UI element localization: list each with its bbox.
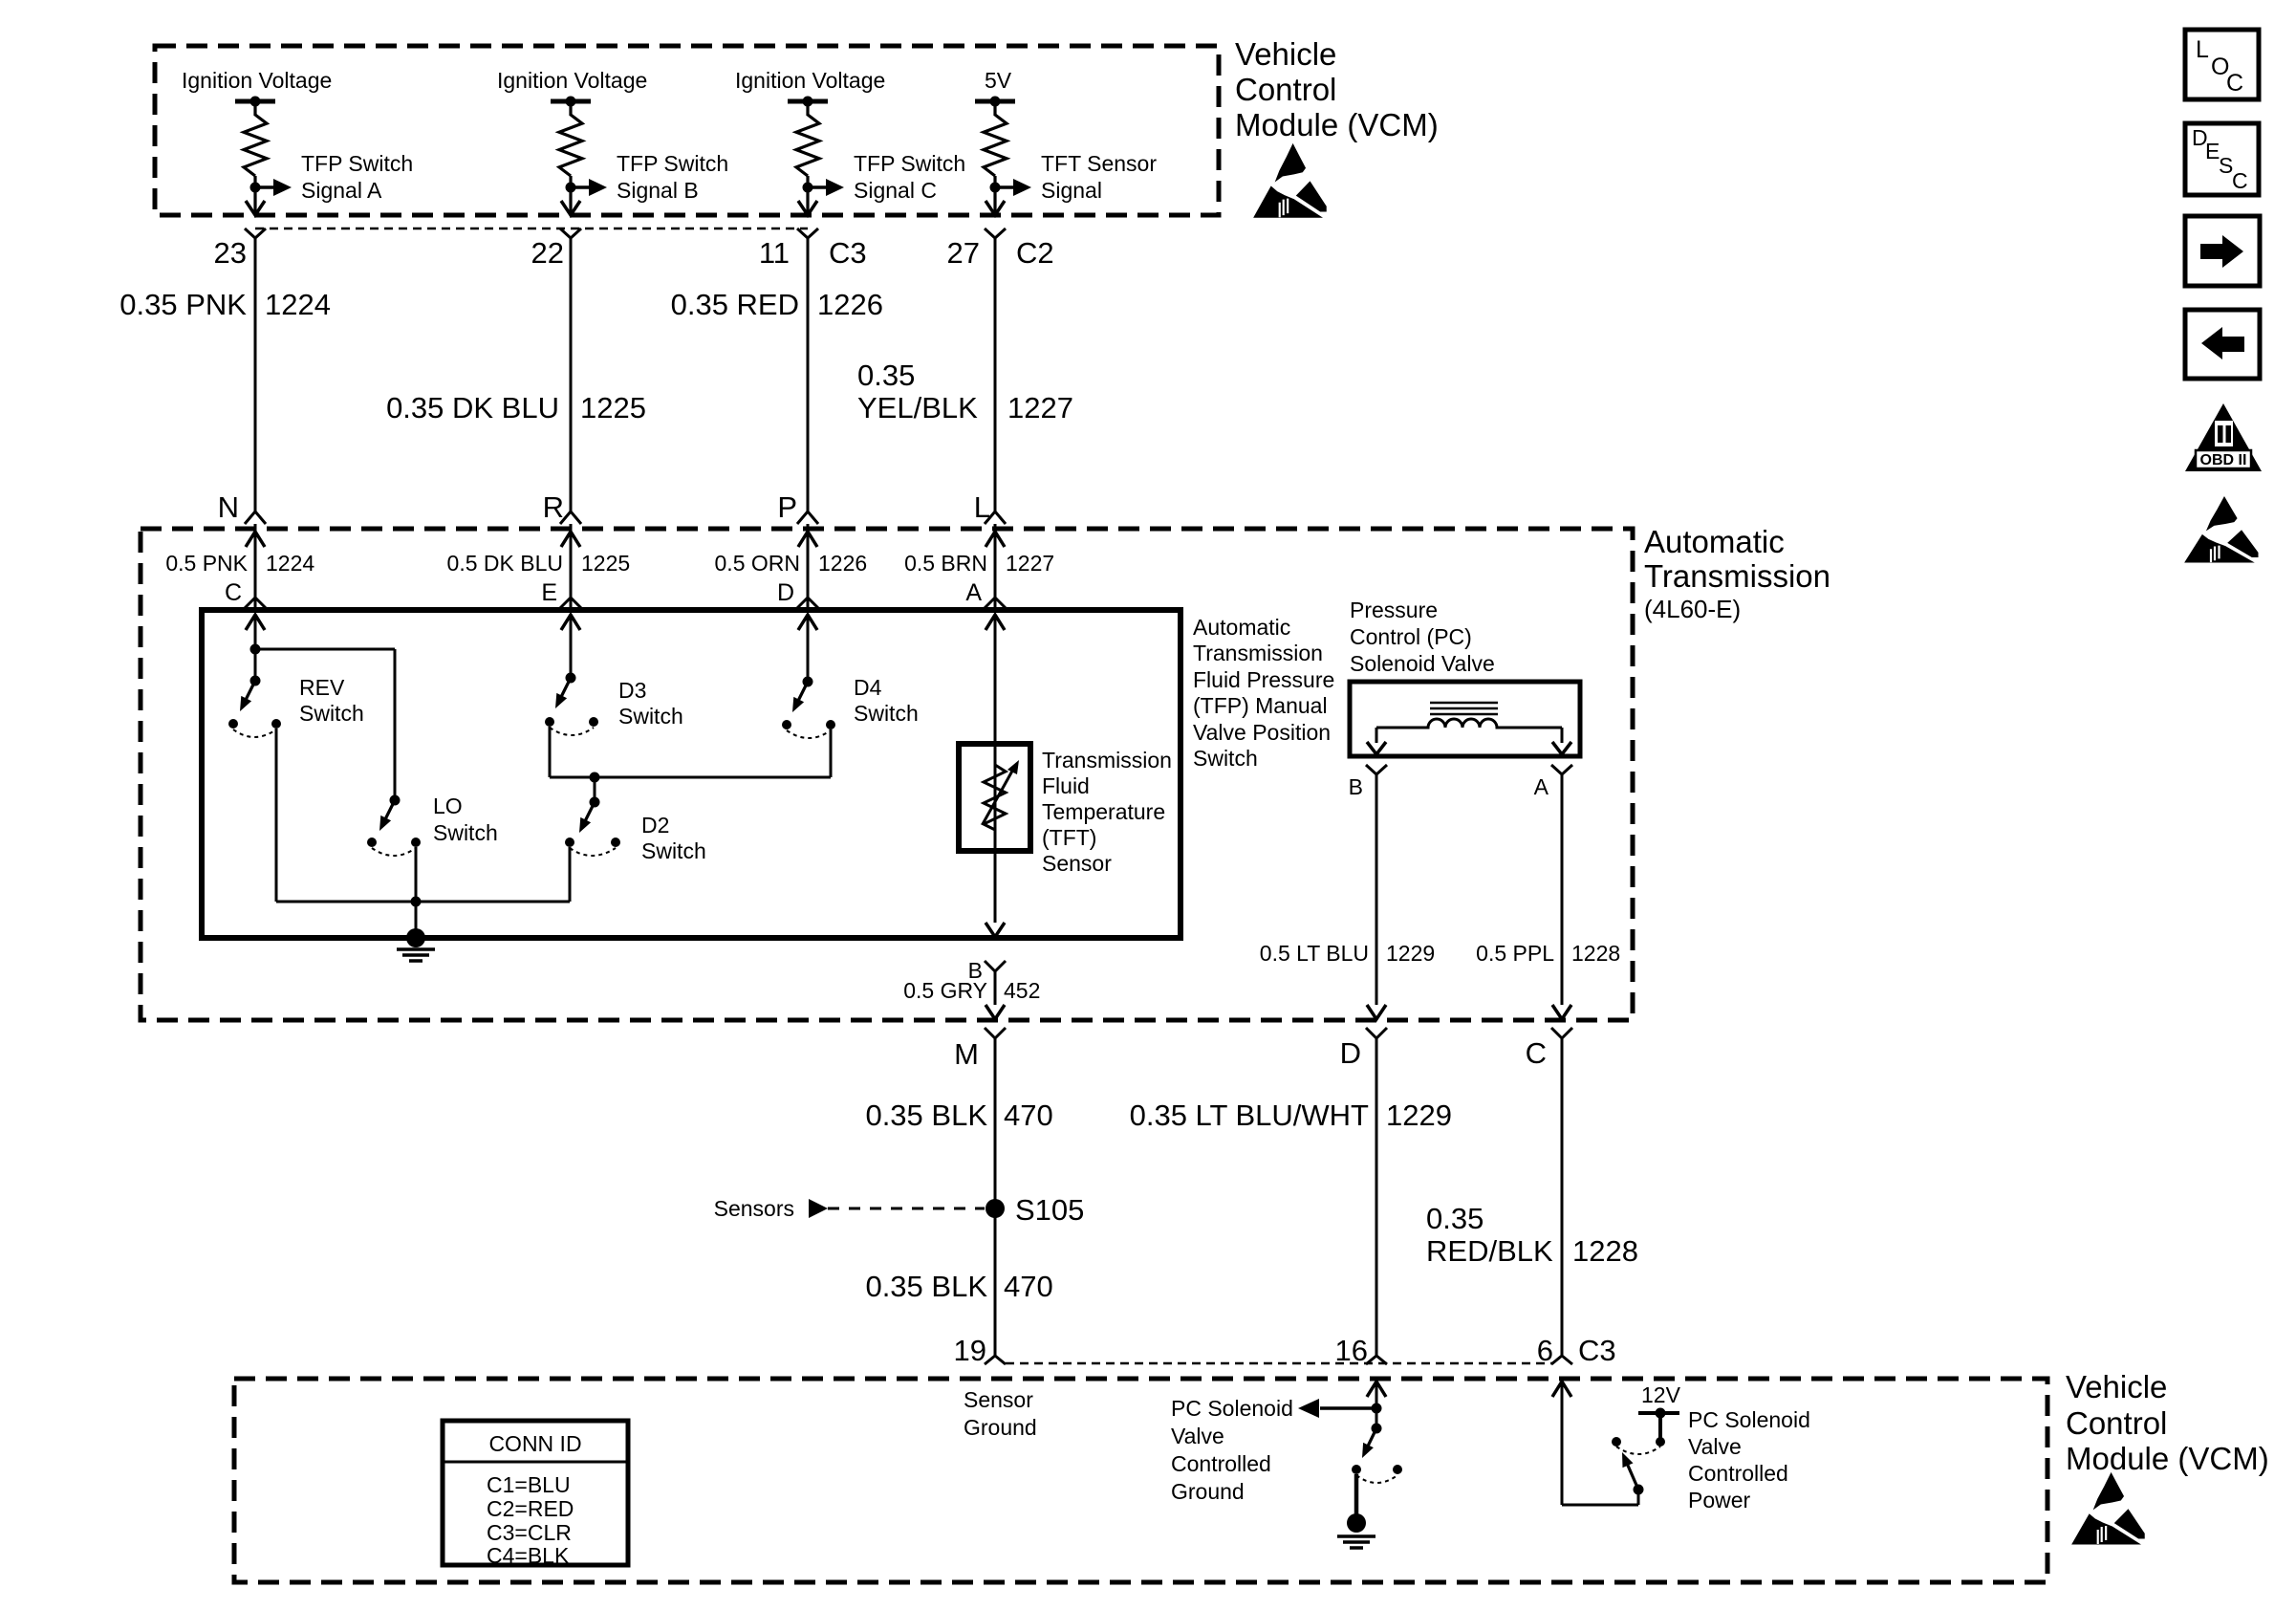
svg-text:Vehicle: Vehicle [2066, 1369, 2167, 1404]
svg-text:PC Solenoid: PC Solenoid [1688, 1407, 1810, 1432]
svg-text:L: L [2196, 36, 2209, 63]
wire 0.5 PPL 1228 (solenoid A down) [1476, 774, 1620, 1005]
svg-text:C: C [225, 579, 242, 606]
label: Sensor Ground [964, 1387, 1037, 1440]
table: CONN ID box [443, 1421, 628, 1568]
up arrow below transmission edge col 4 [986, 532, 1005, 547]
svg-text:0.35 RED: 0.35 RED [671, 288, 799, 321]
connector pin B (PC solenoid) [1349, 765, 1387, 799]
pin letter E at TFP switch [541, 579, 581, 608]
svg-text:C3: C3 [1578, 1334, 1616, 1367]
label: Transmission Fluid Temperature (TFT) Sensor [1042, 748, 1172, 876]
module box U1: Vehicle Control Module (VCM), top, dashed border [155, 46, 1219, 215]
svg-text:TFT Sensor: TFT Sensor [1041, 151, 1157, 176]
svg-text:C4=BLK: C4=BLK [487, 1543, 570, 1568]
wire 0.35 PNK 1224 (pin 23 to N) [119, 238, 331, 511]
wire pin6 to power switch [1562, 1382, 1638, 1505]
module box: Vehicle Control Module (VCM), bottom, dashed border [234, 1379, 2047, 1582]
svg-text:Switch: Switch [1193, 746, 1258, 771]
svg-text:Vehicle: Vehicle [1235, 36, 1336, 72]
power feed Ignition Voltage (bar with tap) for column 1 [182, 68, 332, 116]
up arrow inside TFP box col 4 [986, 615, 1005, 630]
svg-text:A: A [965, 579, 982, 606]
connector pin A (PC solenoid) [1534, 765, 1572, 799]
svg-text:0.5 PPL: 0.5 PPL [1476, 941, 1554, 966]
svg-text:Control (PC): Control (PC) [1350, 624, 1472, 649]
svg-text:Ground: Ground [964, 1415, 1037, 1440]
resistor R2 pull-up [559, 115, 582, 176]
svg-text:0.5 LT BLU: 0.5 LT BLU [1260, 941, 1369, 966]
switch REV contacts [228, 719, 281, 737]
svg-text:C2: C2 [1016, 236, 1054, 270]
label: LO Switch [433, 794, 498, 845]
node: junction at ground tap [411, 897, 422, 907]
svg-text:6: 6 [1537, 1334, 1553, 1367]
svg-text:TFP Switch: TFP Switch [301, 151, 413, 176]
svg-text:1224: 1224 [266, 551, 314, 576]
wire from pin C to REV switch [254, 615, 257, 681]
svg-text:Valve Position: Valve Position [1193, 720, 1331, 745]
signal arrow: TFP Switch Signal C [808, 151, 965, 203]
signal arrow: TFP Switch Signal B [571, 151, 728, 203]
wire 0.5 DK 1225 inside transmission [447, 524, 631, 608]
svg-text:D2: D2 [641, 813, 669, 838]
svg-text:R: R [543, 490, 564, 524]
connector pin R (transmission) [543, 490, 581, 524]
up arrow into pin 16 [1367, 1382, 1386, 1397]
icon: LOC box [2185, 30, 2259, 99]
label: PC Solenoid Valve Controlled Power [1688, 1407, 1810, 1512]
wire below R3 [806, 176, 809, 214]
wire: feed across to LO switch [255, 649, 395, 800]
svg-text:470: 470 [1004, 1099, 1053, 1132]
connector pin 23 [214, 228, 266, 270]
svg-text:Valve: Valve [1171, 1424, 1224, 1448]
wire from D2 left contact down [569, 847, 572, 902]
svg-text:0.5 GRY: 0.5 GRY [903, 978, 987, 1003]
power: 12V feed [1638, 1382, 1681, 1439]
svg-text:C: C [1526, 1036, 1547, 1070]
wire 0.35 YEL/BLK 1227 (pin 27 to L) [857, 238, 1073, 511]
svg-text:RED/BLK: RED/BLK [1426, 1234, 1553, 1268]
svg-text:C2=RED: C2=RED [487, 1496, 574, 1521]
pin letter A at TFP switch [965, 579, 1006, 608]
node: junction under R2 [566, 183, 576, 193]
down arrow inside solenoid box (A) [1552, 728, 1571, 754]
connector pin L (transmission) [974, 490, 1006, 524]
icon: ESD triangle (right margin) [2185, 497, 2258, 562]
wire contact to ground [1354, 1474, 1359, 1515]
wire: thin dashed harness line under top VCM [255, 228, 808, 230]
wire from D4 right contact down [830, 729, 833, 777]
svg-text:B: B [1349, 774, 1363, 799]
switch: PC power control contacts [1612, 1437, 1665, 1454]
svg-text:Solenoid Valve: Solenoid Valve [1350, 651, 1495, 676]
wire: thin dashed harness line above bottom VCM [1006, 1362, 1552, 1365]
switch LO contacts [367, 838, 421, 856]
svg-text:Controlled: Controlled [1171, 1451, 1271, 1476]
svg-text:C: C [2232, 168, 2248, 193]
resistor R1 pull-up [244, 115, 267, 176]
connector pin P (transmission) [777, 490, 818, 524]
svg-text:(4L60-E): (4L60-E) [1644, 595, 1741, 623]
svg-text:C1=BLU: C1=BLU [487, 1472, 571, 1497]
svg-text:1225: 1225 [581, 551, 630, 576]
signal arrow: PC Solenoid (to left) [1298, 1399, 1376, 1418]
pin letter D at TFP switch [777, 579, 818, 608]
down arrow at VCM edge, column 4 [986, 201, 1005, 215]
wire from LO right contact to ground bus [415, 847, 418, 932]
wire 0.35 RED 1226 (pin 11 to P) [671, 238, 883, 511]
connector pin B (TFT sensor output) [968, 958, 1006, 983]
switch: PC ground control (arm) [1362, 1424, 1382, 1459]
wire 0.5 PNK 1224 inside transmission [165, 524, 314, 608]
svg-text:P: P [777, 490, 797, 524]
svg-text:Controlled: Controlled [1688, 1461, 1788, 1486]
label: D4 Switch [854, 675, 919, 726]
svg-text:0.35 PNK: 0.35 PNK [119, 288, 247, 321]
svg-text:Signal: Signal [1041, 178, 1102, 203]
wire 0.35 DK BLU 1225 (pin 22 to R) [386, 238, 646, 511]
svg-text:N: N [218, 490, 239, 524]
node: junction to PC Solenoid signal [1372, 1403, 1382, 1414]
down arrow at VCM edge, column 2 [561, 201, 580, 215]
svg-text:Module (VCM): Module (VCM) [1235, 107, 1439, 142]
wire from pin E to D3 switch [570, 615, 573, 678]
svg-text:Ignition Voltage: Ignition Voltage [497, 68, 647, 93]
connector pin N (transmission) [218, 490, 266, 524]
svg-text:Ignition Voltage: Ignition Voltage [182, 68, 332, 93]
icon: OBD II triangle [2185, 403, 2262, 471]
svg-text:1228: 1228 [1571, 941, 1620, 966]
svg-text:OBD II: OBD II [2200, 452, 2247, 468]
node: junction to LO feed [250, 644, 261, 655]
wire below R4 [993, 176, 996, 214]
svg-text:0.5 DK BLU: 0.5 DK BLU [447, 551, 563, 576]
svg-text:A: A [1534, 774, 1549, 799]
component box: TFP Manual Valve Position Switch [202, 610, 1180, 938]
switch LO (arm) [379, 795, 401, 832]
svg-text:Sensor: Sensor [964, 1387, 1033, 1412]
up arrow inside TFP box col 2 [561, 615, 580, 630]
ground G1 (VCM internal) [1337, 1513, 1375, 1548]
down arrow at VCM edge, column 1 [246, 201, 265, 215]
switch D2 contacts [565, 838, 620, 856]
label: Automatic Transmission Fluid Pressure (TFP) Manual Valve Position Switch [1193, 615, 1334, 771]
svg-text:Switch: Switch [641, 838, 706, 863]
svg-text:0.35 BLK: 0.35 BLK [865, 1099, 987, 1132]
svg-text:0.5 ORN: 0.5 ORN [715, 551, 800, 576]
up arrow into pin 6 [1552, 1382, 1571, 1397]
switch D4 contacts [782, 720, 835, 738]
wire 0.5 LT BLU 1229 (solenoid B down) [1260, 774, 1435, 1005]
wire: junction to D2 pivot [594, 777, 596, 802]
svg-text:(TFP) Manual: (TFP) Manual [1193, 693, 1328, 718]
switch D3 (arm) [555, 673, 576, 709]
up arrow below transmission edge col 2 [561, 532, 580, 547]
svg-text:CONN ID: CONN ID [488, 1431, 581, 1456]
node: junction under R3 [803, 183, 813, 193]
signal arrow: TFT Sensor Signal [995, 151, 1157, 203]
connector pin 11 C3 [759, 228, 867, 270]
svg-text:D4: D4 [854, 675, 882, 700]
thermistor TFT (zigzag with arrow) [983, 760, 1019, 830]
svg-text:Valve: Valve [1688, 1434, 1742, 1459]
svg-text:Signal A: Signal A [301, 178, 382, 203]
svg-text:Automatic: Automatic [1193, 615, 1290, 640]
svg-text:19: 19 [954, 1334, 986, 1367]
connector pin 27 C2 [947, 228, 1054, 270]
up arrow below transmission edge col 3 [798, 532, 817, 547]
label: PC Solenoid Valve Controlled Ground [1171, 1396, 1293, 1504]
icon: DESC box [2185, 123, 2259, 195]
down arrow at transmission edge (solenoid B wire) [1367, 1005, 1386, 1019]
svg-text:0.5 PNK: 0.5 PNK [165, 551, 248, 576]
switch D3 contacts [545, 717, 598, 735]
svg-text:Ignition Voltage: Ignition Voltage [735, 68, 885, 93]
svg-text:Transmission: Transmission [1644, 558, 1830, 594]
svg-text:0.35: 0.35 [857, 359, 915, 392]
connector pin D (bottom) [1340, 1028, 1387, 1070]
svg-text:1228: 1228 [1572, 1234, 1638, 1268]
label: Pressure Control (PC) Solenoid Valve [1350, 598, 1495, 676]
down arrow at TFP box bottom (pin B) [986, 923, 1005, 937]
svg-text:Switch: Switch [854, 701, 919, 726]
svg-text:16: 16 [1335, 1334, 1368, 1367]
svg-text:1226: 1226 [817, 288, 883, 321]
svg-text:Switch: Switch [299, 701, 364, 726]
svg-text:Ground: Ground [1171, 1479, 1245, 1504]
svg-text:TFP Switch: TFP Switch [617, 151, 728, 176]
icon: left arrow box [2185, 310, 2260, 379]
wire 0.35 RED/BLK 1228 (C to 6) [1426, 1038, 1638, 1356]
node: junction under R1 [250, 183, 261, 193]
svg-text:D: D [1340, 1036, 1361, 1070]
up arrow inside TFP box col 3 [798, 615, 817, 630]
svg-text:REV: REV [299, 675, 345, 700]
switch: PC ground control contacts [1352, 1465, 1402, 1483]
svg-text:C3: C3 [829, 236, 867, 270]
module box: Automatic Transmission (4L60-E), dashed border [141, 529, 1633, 1020]
inductor L1: solenoid coil with core [1376, 703, 1562, 728]
switch REV (arm) [240, 676, 261, 712]
svg-text:D3: D3 [618, 678, 646, 703]
label: D3 Switch [618, 678, 683, 729]
switch D2 (arm) [579, 797, 600, 834]
svg-text:0.5 BRN: 0.5 BRN [904, 551, 987, 576]
svg-text:Pressure: Pressure [1350, 598, 1438, 622]
wire: D3/D4 bus [550, 776, 831, 779]
ground (TFP switch case) [397, 928, 435, 961]
svg-text:1229: 1229 [1386, 1099, 1452, 1132]
wire: ground bus in TFP box [276, 901, 570, 903]
pin letter C at TFP switch [225, 579, 266, 608]
connector pin C (bottom) [1526, 1028, 1572, 1070]
svg-text:LO: LO [433, 794, 463, 818]
svg-text:Module (VCM): Module (VCM) [2066, 1441, 2269, 1476]
svg-text:1224: 1224 [265, 288, 331, 321]
label: REV Switch [299, 675, 364, 726]
svg-text:5V: 5V [985, 68, 1012, 93]
down arrow inside solenoid box (B) [1367, 728, 1386, 754]
label: Vehicle Control Module (VCM) top right [1235, 36, 1439, 142]
svg-text:1227: 1227 [1006, 551, 1054, 576]
down arrow at transmission edge (solenoid A wire) [1552, 1005, 1571, 1019]
svg-text:Signal C: Signal C [854, 178, 937, 203]
svg-text:1229: 1229 [1386, 941, 1435, 966]
wire 0.35 BLK 470 (M to S105) [865, 1038, 1052, 1356]
svg-text:Automatic: Automatic [1644, 524, 1785, 559]
svg-text:Fluid Pressure: Fluid Pressure [1193, 667, 1334, 692]
svg-text:Switch: Switch [433, 820, 498, 845]
label: D2 Switch [641, 813, 706, 863]
power feed 5V (bar with tap) for column 4 [975, 68, 1015, 116]
svg-text:TFP Switch: TFP Switch [854, 151, 965, 176]
svg-text:Sensor: Sensor [1042, 851, 1112, 876]
splice S105 with Sensors branch [714, 1193, 1085, 1227]
node: junction under R4 [990, 183, 1001, 193]
svg-text:YEL/BLK: YEL/BLK [857, 391, 978, 424]
switch D4 (arm) [792, 677, 813, 713]
switch: PC power control (arm) [1622, 1452, 1644, 1495]
svg-text:Control: Control [2066, 1405, 2167, 1441]
up arrow below transmission edge col 1 [246, 532, 265, 547]
svg-text:Transmission: Transmission [1042, 748, 1172, 772]
svg-text:D: D [777, 579, 794, 606]
svg-text:12V: 12V [1641, 1382, 1681, 1407]
svg-text:S105: S105 [1015, 1193, 1084, 1227]
component box: TFT sensor [959, 744, 1030, 851]
node: junction feeding D2 [590, 772, 600, 783]
wire below R2 [569, 176, 572, 214]
svg-text:23: 23 [214, 236, 247, 270]
connector pin 16 [1335, 1334, 1387, 1367]
svg-text:0.35: 0.35 [1426, 1202, 1484, 1235]
power feed Ignition Voltage (bar with tap) for column 2 [497, 68, 647, 116]
wire 0.5 BRN 1227 inside transmission [904, 524, 1054, 608]
svg-text:11: 11 [759, 236, 790, 270]
svg-text:(TFT): (TFT) [1042, 825, 1096, 850]
svg-text:1225: 1225 [580, 391, 646, 424]
svg-text:0.35 LT BLU/WHT: 0.35 LT BLU/WHT [1130, 1099, 1369, 1132]
svg-text:E: E [541, 579, 557, 606]
svg-text:M: M [954, 1037, 979, 1071]
svg-text:Control: Control [1235, 72, 1336, 107]
wire 0.5 GRY 452 [903, 971, 1040, 1005]
up arrow inside TFP box col 1 [246, 615, 265, 630]
svg-text:Switch: Switch [618, 704, 683, 729]
down arrow at VCM edge, column 3 [798, 201, 817, 215]
connector pin 6 C3 [1537, 1334, 1616, 1367]
wire from pin D to D4 switch [807, 615, 810, 682]
svg-text:Transmission: Transmission [1193, 641, 1323, 665]
svg-text:27: 27 [947, 236, 980, 270]
svg-text:Temperature: Temperature [1042, 799, 1165, 824]
down arrow at transmission edge (pin B) [986, 1005, 1005, 1019]
label: Vehicle Control Module (VCM) bottom right [2066, 1369, 2269, 1476]
svg-text:0.35 DK BLU: 0.35 DK BLU [386, 391, 559, 424]
ESD sensitive symbol (top VCM) [1254, 144, 1326, 217]
signal arrow: TFP Switch Signal A [255, 151, 413, 203]
svg-text:Sensors: Sensors [714, 1196, 794, 1221]
wire 0.35 LT BLU/WHT 1229 (D to 16) [1130, 1038, 1452, 1356]
svg-text:Signal B: Signal B [617, 178, 699, 203]
svg-text:PC Solenoid: PC Solenoid [1171, 1396, 1293, 1421]
wire pin A through TFT sensor [994, 615, 997, 923]
svg-text:470: 470 [1004, 1270, 1053, 1303]
wire 0.5 ORN 1226 inside transmission [715, 524, 868, 608]
connector pin M [954, 1028, 1006, 1071]
component box: PC solenoid valve [1350, 682, 1580, 756]
wire from REV right contact down [275, 729, 278, 902]
ESD sensitive symbol (bottom VCM) [2072, 1473, 2144, 1544]
svg-text:0.35 BLK: 0.35 BLK [865, 1270, 987, 1303]
wire from D3 left contact down [549, 727, 552, 777]
connector pin 19 [954, 1334, 1006, 1367]
svg-text:C3=CLR: C3=CLR [487, 1520, 572, 1545]
svg-text:1226: 1226 [818, 551, 867, 576]
svg-text:C: C [2226, 70, 2243, 97]
svg-text:22: 22 [531, 236, 564, 270]
connector pin 22 [531, 228, 581, 270]
wire below R1 [253, 176, 256, 214]
svg-text:Power: Power [1688, 1488, 1751, 1512]
label: Automatic Transmission (4L60-E) [1644, 524, 1830, 623]
svg-text:1227: 1227 [1007, 391, 1073, 424]
resistor R3 pull-up [796, 115, 819, 176]
power feed Ignition Voltage (bar with tap) for column 3 [735, 68, 885, 116]
resistor R4 pull-up [984, 115, 1007, 176]
wire pin16 to ground switch [1375, 1382, 1378, 1428]
svg-text:Fluid: Fluid [1042, 773, 1090, 798]
svg-text:452: 452 [1004, 978, 1040, 1003]
icon: right arrow box [2185, 216, 2260, 286]
